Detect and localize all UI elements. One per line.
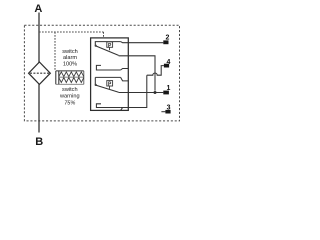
indicator S1 top edge xyxy=(56,70,84,72)
wire to terminal 4 with hop over common xyxy=(147,66,164,76)
terminal 4 square xyxy=(164,64,169,68)
switch SW2 pressure actuator P box xyxy=(107,81,113,86)
svg-text:2: 2 xyxy=(165,34,169,41)
switch SW2 pivot xyxy=(95,84,97,86)
svg-text:alarm: alarm xyxy=(63,55,77,61)
wire terminal 1 horizontal xyxy=(119,92,164,94)
filter F1 mesh dashed line xyxy=(30,72,50,74)
switch SW1 contact bar and left stub xyxy=(95,42,120,46)
wire SW2 NO bar to riser xyxy=(121,107,147,109)
terminal 3 stub wire xyxy=(161,111,165,113)
switch SW1 pressure actuator P box xyxy=(107,42,113,47)
switch SW1 step to terminal 2 wire xyxy=(121,42,164,43)
enclosure dashed border xyxy=(24,25,179,121)
terminal 3 square xyxy=(165,110,170,114)
terminal 1 square xyxy=(163,91,169,95)
svg-text:warning: warning xyxy=(59,93,80,99)
svg-text:switch: switch xyxy=(62,87,78,93)
indicator S1 right end plate xyxy=(83,71,85,84)
switch SW2 left stub xyxy=(94,77,96,84)
svg-text:75%: 75% xyxy=(64,100,75,106)
wire SW1 common to junction xyxy=(119,56,155,91)
junction dot commons xyxy=(154,91,157,94)
switch SW2 actuator plunger xyxy=(109,86,111,89)
switch SW1 NO step to bus xyxy=(121,69,129,71)
switch SW1 actuator plunger xyxy=(109,47,111,50)
svg-text:switch: switch xyxy=(62,49,78,55)
svg-text:3: 3 xyxy=(167,104,171,111)
indicator S1 spring lower zigzag xyxy=(59,78,84,83)
indicator S1 mid rod xyxy=(59,76,84,78)
indicator S1 spring upper zigzag xyxy=(59,72,84,77)
svg-text:B: B xyxy=(35,136,43,148)
switch SW2 lever xyxy=(96,85,119,92)
indicator S1 bottom edge xyxy=(56,83,84,85)
switch SW2 step to bus xyxy=(121,77,129,81)
terminal 2 square xyxy=(163,40,168,44)
switch SW1 pivot xyxy=(95,45,97,47)
switch SW2 separator edge xyxy=(95,76,120,78)
indicator S1 piston plates xyxy=(55,71,57,84)
linkage dashed horizontal from A line to switches xyxy=(39,31,104,33)
switch SW1 NO contact bracket xyxy=(96,65,120,70)
svg-text:100%: 100% xyxy=(63,62,77,68)
wire port B vertical xyxy=(38,84,40,133)
linkage dashed vertical to switch housing xyxy=(103,32,105,38)
svg-text:4: 4 xyxy=(166,59,170,66)
linkage dashed vertical to indicator piston xyxy=(54,32,56,71)
switch housing box xyxy=(91,38,129,111)
switch SW2 NO contact bracket xyxy=(96,104,120,108)
wire port A vertical xyxy=(38,13,40,63)
svg-text:1: 1 xyxy=(166,85,170,92)
wire SW2 NO step from housing bottom xyxy=(121,75,147,110)
filter F1 (diamond) xyxy=(29,62,51,84)
switch SW1 lever xyxy=(96,46,119,56)
